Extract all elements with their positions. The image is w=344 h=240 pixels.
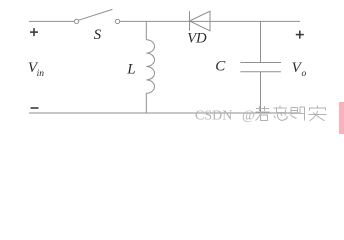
- minus sign left (Vin -): [31, 107, 39, 109]
- svg-text:VD: VD: [187, 30, 207, 46]
- capacitor C top plate: [240, 62, 281, 64]
- wire top from switch to right output: [120, 20, 300, 22]
- pink highlight bar bottom-right: [339, 102, 344, 134]
- switch S right terminal circle: [115, 19, 119, 23]
- svg-text:o: o: [302, 69, 307, 79]
- svg-text:@: @: [242, 108, 255, 123]
- capacitor bottom stem wire: [260, 72, 262, 113]
- svg-text:L: L: [126, 62, 135, 78]
- wire top-left from Vin+ to switch: [29, 20, 74, 22]
- bottom wire: [29, 112, 300, 114]
- inductor bottom tail wire: [145, 93, 147, 113]
- watermark glyph an (安): [309, 106, 327, 121]
- diode VD triangle: [190, 11, 211, 31]
- node A: junction wire down to inductor: [145, 21, 147, 39]
- plus sign left (Vin +): [30, 28, 38, 36]
- svg-text:S: S: [94, 27, 102, 43]
- diode VD cathode bar: [189, 11, 191, 31]
- node B: junction wire down to capacitor: [260, 21, 262, 62]
- svg-text:CSDN: CSDN: [195, 108, 232, 123]
- watermark glyph wang (忘): [274, 106, 288, 121]
- inductor L coil: [146, 40, 154, 94]
- watermark glyph ji (即): [291, 107, 305, 121]
- switch S left terminal circle: [74, 19, 78, 23]
- capacitor C bottom plate: [240, 71, 281, 73]
- svg-text:in: in: [37, 69, 45, 79]
- plus sign right (Vo +): [296, 31, 304, 39]
- switch S blade: [79, 9, 113, 20]
- watermark glyph ruo (若): [256, 106, 270, 121]
- svg-text:C: C: [215, 58, 226, 74]
